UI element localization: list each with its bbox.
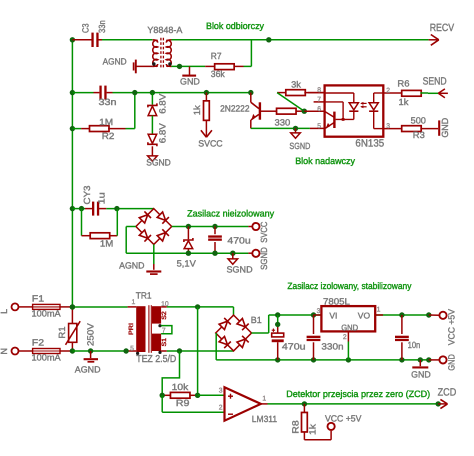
- label LM311 pin 3: [219, 387, 223, 394]
- pin VCC +5V terminal circle at R8: [328, 423, 335, 430]
- svg-text:VI: VI: [329, 311, 337, 321]
- node R8 junction: [302, 401, 307, 406]
- label SGND at rail: [227, 265, 254, 275]
- label title Detektor ZCD: [286, 389, 430, 399]
- capacitor C-330n: [307, 315, 321, 360]
- svg-text:6N135: 6N135: [355, 138, 384, 150]
- diode bridge rectifier B-1: [136, 209, 172, 245]
- svg-text:CY3: CY3: [82, 186, 92, 205]
- capacitor C-470u filter: [208, 227, 222, 254]
- pin L terminal circle: [12, 303, 19, 310]
- svg-text:SVCC: SVCC: [198, 138, 223, 148]
- node gnd-symbol junction: [418, 357, 423, 362]
- svg-text:5,1V: 5,1V: [177, 259, 196, 269]
- label SGND rotated: [259, 247, 269, 270]
- svg-text:6.8V: 6.8V: [157, 123, 167, 143]
- label SVCC: [198, 138, 223, 148]
- pin U1 pin5 lead: [310, 127, 325, 129]
- svg-text:10k: 10k: [172, 382, 189, 392]
- label LM311 pin 1: [262, 395, 266, 402]
- capacitor C-33n coupling: [99, 86, 106, 100]
- svg-text:2: 2: [386, 87, 390, 94]
- node T2 winding polarity dot left: [152, 62, 155, 65]
- svg-text:1M: 1M: [100, 238, 113, 248]
- node GND terminal junction: [426, 357, 431, 362]
- node CY3 left junction: [79, 206, 84, 211]
- label TR1 pin 5: [130, 345, 134, 352]
- label 33n value: [99, 97, 117, 107]
- wire main mains bus vertical: [71, 40, 73, 307]
- svg-text:N: N: [0, 348, 9, 355]
- label 330n value: [321, 342, 343, 352]
- svg-text:R3: R3: [413, 130, 425, 140]
- node TR1 polarity dot S1: [158, 351, 161, 354]
- svg-text:500: 500: [411, 116, 426, 126]
- svg-text:GND: GND: [341, 322, 358, 332]
- label U1 value 6N135: [355, 138, 384, 150]
- ground GND at T2 secondary: [182, 66, 196, 75]
- svg-text:F1: F1: [32, 294, 44, 304]
- svg-text:Zasilacz nieizolowany: Zasilacz nieizolowany: [187, 208, 274, 218]
- transformer T2 Y8848-A: [153, 38, 172, 69]
- svg-text:LM311: LM311: [252, 414, 277, 424]
- label 470u value: [227, 236, 250, 246]
- wire VCC5 rail: [269, 314, 429, 316]
- label L: [0, 309, 9, 314]
- label AGND at T2: [103, 56, 127, 66]
- wire B1 minus to gnd rail: [215, 333, 217, 360]
- fuse F2 100mA: [18, 349, 73, 354]
- resistor R-1M parallel CY3: [82, 209, 118, 239]
- label TR1 pin 1: [132, 299, 136, 306]
- svg-text:VCC +5V: VCC +5V: [325, 414, 361, 424]
- node secondary top junction: [195, 304, 200, 309]
- label 3k value: [291, 80, 301, 90]
- diode bridge rectifier B1: [216, 315, 252, 351]
- svg-text:1u: 1u: [97, 192, 107, 204]
- label N: [0, 348, 9, 355]
- svg-text:3: 3: [317, 308, 321, 315]
- node 10n gnd junction: [399, 357, 404, 362]
- svg-text:SGND: SGND: [227, 265, 254, 275]
- svg-text:F2: F2: [32, 338, 44, 348]
- label R7 value 36k: [211, 69, 225, 79]
- svg-text:1: 1: [262, 395, 266, 402]
- pin U1 pin6 lead: [304, 110, 324, 112]
- wire B1 plus to rail: [252, 315, 269, 333]
- label pin 8: [317, 87, 321, 94]
- resistor R7 36k: [205, 64, 243, 70]
- node 470u top junction: [212, 224, 217, 229]
- op-amp IC1 7805L regulator box: [321, 306, 375, 331]
- svg-text:R6: R6: [397, 78, 409, 88]
- label C3 value 33n: [97, 20, 107, 33]
- label TR1 pin 7: [162, 328, 166, 335]
- label GND at T2: [180, 76, 200, 86]
- label SVCC rotated: [259, 221, 269, 242]
- label Q1 value 2N2222: [220, 103, 249, 113]
- label R8 name rotated: [290, 420, 300, 433]
- wire CY3 net: [72, 208, 153, 210]
- label GND terminal rotated: [446, 354, 456, 371]
- resistor R3 500: [402, 126, 438, 132]
- svg-text:GND: GND: [440, 117, 450, 137]
- node R9 right junction: [195, 393, 200, 398]
- resistor R-3k: [277, 90, 325, 96]
- svg-text:Y8848-A: Y8848-A: [147, 25, 182, 35]
- svg-text:10n: 10n: [408, 340, 421, 350]
- label PRI rotated: [128, 323, 135, 335]
- node 470u bottom junction: [212, 251, 217, 256]
- ground AGND at N: [84, 351, 98, 362]
- transformer TR1 primary winding: [136, 306, 145, 352]
- resistor R-330 base: [266, 108, 305, 114]
- label B1 name: [251, 315, 262, 325]
- node 330n gnd junction: [311, 357, 316, 362]
- pin VCC +5V terminal circle: [429, 312, 447, 319]
- node R9 left junction: [160, 393, 165, 398]
- wire RECV net top: [99, 39, 429, 41]
- wire SVCC-sense net: [72, 92, 250, 94]
- svg-text:100mA: 100mA: [32, 308, 61, 318]
- label 470u2 value: [282, 342, 306, 352]
- svg-text:B1: B1: [251, 315, 262, 325]
- label R3 value 500: [411, 116, 426, 126]
- wire T2 secondary to R7: [171, 65, 205, 67]
- label TR1 name: [136, 290, 152, 300]
- node CY3 right junction: [114, 206, 119, 211]
- capacitor CY3 1u: [92, 202, 99, 216]
- wire U1 light arrows: [360, 102, 366, 108]
- svg-text:SGND: SGND: [289, 141, 310, 151]
- label TR1 value TEZ 2.5/D: [136, 354, 176, 365]
- transformer TR1 secondary S1: [152, 334, 161, 351]
- svg-text:AGND: AGND: [103, 56, 127, 66]
- pin N terminal circle: [12, 348, 19, 355]
- label C3 name: [81, 23, 91, 33]
- label 7805L value: [323, 296, 350, 306]
- svg-text:SGND: SGND: [146, 158, 171, 168]
- svg-text:GND: GND: [180, 76, 200, 86]
- wire AC2 to comparator jog: [162, 351, 179, 395]
- resistor R9 10k: [162, 392, 197, 398]
- node T2 winding polarity dot right: [168, 62, 171, 65]
- svg-text:SEND: SEND: [423, 75, 447, 87]
- wire between zeners: [151, 116, 153, 135]
- svg-text:AGND: AGND: [119, 260, 145, 270]
- label R2 value 1M: [99, 117, 113, 127]
- svg-text:5: 5: [317, 123, 321, 130]
- label R1 name rotated: [57, 326, 67, 338]
- node bus-CY3 junction: [70, 206, 75, 211]
- label VI pin name: [329, 311, 337, 321]
- svg-text:330: 330: [275, 117, 291, 127]
- label pin 7: [317, 97, 321, 104]
- diode zener D1 6.8V: [148, 103, 157, 115]
- wire R2 to net: [126, 93, 135, 129]
- pin SGND terminal circle: [248, 250, 259, 257]
- wire AC1 to comparator: [197, 307, 199, 395]
- node zener tap junction: [150, 90, 155, 95]
- label R9 name: [176, 398, 190, 408]
- wire secondary bottom net: [161, 350, 234, 352]
- label R3 name: [413, 130, 425, 140]
- label TR1 pin 10: [161, 301, 169, 308]
- label CY3 name: [82, 186, 92, 205]
- svg-text:3k: 3k: [291, 80, 301, 90]
- label AGND at bridge: [119, 260, 145, 270]
- svg-text:GND: GND: [411, 370, 431, 380]
- svg-text:36k: 36k: [211, 69, 225, 79]
- svg-text:Blok odbiorczy: Blok odbiorczy: [206, 21, 264, 31]
- wire SVCC rail: [172, 226, 249, 228]
- label pin 5: [317, 123, 321, 130]
- svg-text:VO: VO: [358, 311, 371, 321]
- svg-text:5: 5: [130, 345, 134, 352]
- label T2 value Y8848-A: [147, 25, 182, 35]
- svg-text:TEZ 2.5/D: TEZ 2.5/D: [136, 354, 176, 365]
- capacitor C-470u polarized: [272, 315, 284, 360]
- pin 7805 GND lead: [347, 331, 349, 360]
- svg-text:SVCC: SVCC: [259, 221, 269, 242]
- label VCC +5V at R8: [325, 414, 361, 424]
- ground GND rotated at R3: [438, 120, 440, 135]
- svg-text:7: 7: [317, 97, 321, 104]
- resistor R1 varistor 250V: [66, 307, 81, 351]
- label AGND at N: [75, 365, 101, 375]
- node ZCD arrow junction: [436, 401, 441, 406]
- label VCC +5V rotated: [446, 309, 456, 345]
- wire ZCD output: [261, 403, 438, 405]
- label 1M value: [100, 238, 113, 248]
- pin RECV arrow off-page right: [429, 35, 439, 46]
- svg-text:7805L: 7805L: [323, 296, 350, 306]
- label R1 value 250V rotated: [85, 323, 95, 346]
- svg-text:Blok nadawczy: Blok nadawczy: [295, 156, 355, 166]
- label F1 value 100mA: [32, 308, 61, 318]
- svg-text:L: L: [0, 309, 9, 314]
- label title Zasilacz izolowany stabilizowany: [287, 281, 411, 291]
- label RECV net: [430, 22, 455, 34]
- label U2 value LM311: [252, 414, 277, 424]
- node 10n rail junction: [399, 312, 404, 317]
- node secondary bottom junction: [177, 348, 182, 353]
- label S1 rotated: [161, 337, 168, 346]
- pin U1 pin2 lead: [383, 92, 402, 94]
- svg-text:6.8V: 6.8V: [157, 94, 167, 114]
- node SGND tap at pin5 wire: [293, 126, 298, 131]
- capacitor C-10n: [395, 315, 409, 360]
- wire N net to TR1: [72, 350, 136, 352]
- label R2 name: [102, 131, 115, 141]
- node N-R1 junction: [70, 348, 75, 353]
- pin 7805 VO lead: [375, 314, 383, 316]
- capacitor C3 33n: [72, 33, 102, 47]
- ground AGND at bridge: [146, 272, 161, 275]
- op-amp U2 LM311 comparator: [225, 387, 261, 421]
- transformer TR1 core: [149, 305, 151, 353]
- svg-text:TR1: TR1: [136, 290, 152, 300]
- node Q1 collector junction: [248, 90, 253, 95]
- ground SGND arrow at rail: [228, 253, 238, 264]
- svg-text:R2: R2: [102, 131, 115, 141]
- svg-text:Detektor przejscia przez zero: Detektor przejscia przez zero (ZCD): [286, 389, 430, 399]
- pin U1 pin8 lead: [308, 92, 325, 94]
- svg-text:33n: 33n: [99, 97, 117, 107]
- label 330 value: [275, 117, 291, 127]
- diode zener D2 6.8V: [148, 134, 157, 146]
- label ZCD net: [438, 386, 457, 398]
- pin U1 pin3 lead: [383, 128, 402, 130]
- label pin 2: [386, 87, 390, 94]
- svg-text:3: 3: [219, 387, 223, 394]
- diode U1 internal LED: [369, 93, 383, 129]
- diode U1 internal photodiode: [325, 93, 359, 119]
- label F1 name: [32, 294, 44, 304]
- label 7805 pin 1: [377, 306, 381, 313]
- label VO pin name: [358, 311, 371, 321]
- wire to pin2: [162, 395, 224, 412]
- ground SGND below zeners: [148, 146, 158, 161]
- wire R7 up to RECV: [244, 40, 252, 67]
- svg-text:R8: R8: [290, 420, 300, 433]
- node 470u2 rail junction: [275, 312, 280, 317]
- svg-text:1: 1: [377, 306, 381, 313]
- node 33n-R2 junction: [132, 90, 137, 95]
- label D2 value 6.8V: [157, 123, 167, 143]
- wire emitter to opto pin5: [251, 127, 310, 129]
- wire L net to TR1: [72, 306, 136, 308]
- pin U1 pin7 stub: [314, 101, 325, 103]
- ground SGND at emitter: [291, 128, 301, 138]
- label 1k value: [192, 105, 202, 116]
- resistor R2 1M: [72, 126, 125, 132]
- fuse F1 100mA: [18, 304, 73, 309]
- svg-text:PRI: PRI: [128, 323, 135, 335]
- pin GND terminal circle: [429, 356, 447, 363]
- node 330n rail junction: [311, 312, 316, 317]
- label title Blok odbiorczy: [206, 21, 264, 31]
- label D1 value 6.8V: [157, 94, 167, 114]
- svg-text:ZCD: ZCD: [438, 386, 457, 398]
- node N-AGND junction: [88, 348, 93, 353]
- node SGND tap junction: [230, 251, 235, 256]
- ground GND symbol at rail: [412, 360, 428, 368]
- node N-TR1 pin junction: [123, 348, 128, 353]
- label D3 value 5.1V: [177, 259, 196, 269]
- svg-text:R7: R7: [211, 51, 222, 61]
- label R6 name: [397, 78, 409, 88]
- wire to pin3: [198, 394, 225, 396]
- label SEND net: [423, 75, 447, 87]
- node bus-F1 junction: [70, 304, 75, 309]
- node 7805 gnd junction: [346, 357, 351, 362]
- op-amp U1 6N135 package box: [325, 85, 384, 136]
- ground AGND at T2 primary: [134, 60, 153, 74]
- resistor R-1k to SVCC: [204, 93, 210, 137]
- svg-text:1k: 1k: [307, 423, 317, 434]
- label F2 name: [32, 338, 44, 348]
- pin SVCC terminal circle: [248, 223, 259, 230]
- pin SEND arrow off-page: [428, 89, 448, 98]
- label SGND below zeners: [146, 158, 171, 168]
- label 7805 pin 3: [317, 308, 321, 315]
- svg-text:330n: 330n: [321, 342, 343, 352]
- label GND pin name: [341, 322, 358, 332]
- label LM311 pin 2: [219, 404, 223, 411]
- svg-text:R1: R1: [57, 326, 67, 338]
- node bus-R2 junction: [70, 126, 75, 131]
- pin 7805 VI lead: [314, 314, 322, 316]
- wire secondary top net: [161, 307, 233, 315]
- svg-text:3: 3: [386, 123, 390, 130]
- pin ZCD arrow off-page: [438, 399, 447, 408]
- node 1k tap junction: [204, 90, 209, 95]
- node TR1 polarity dot primary: [136, 352, 139, 355]
- label R8 value 1k rotated: [307, 423, 317, 434]
- label pin 6: [317, 106, 321, 113]
- power SVCC arrow: [201, 130, 212, 137]
- label GND rotated at R3: [440, 117, 450, 137]
- svg-text:1k: 1k: [399, 97, 409, 107]
- svg-text:S2: S2: [161, 311, 168, 320]
- label CY3 value 1u: [97, 192, 107, 204]
- svg-text:VCC +5V: VCC +5V: [446, 309, 456, 345]
- svg-text:GND: GND: [446, 354, 456, 371]
- diode zener D3 5.1V: [184, 227, 193, 254]
- svg-text:2N2222: 2N2222: [220, 103, 249, 113]
- node bus-33n junction: [70, 90, 75, 95]
- svg-text:1k: 1k: [192, 105, 202, 116]
- label S2 rotated: [161, 311, 168, 320]
- node base net junction: [302, 109, 307, 114]
- node F1-bus junction duplicate: [70, 304, 75, 309]
- label title Blok nadawczy: [295, 156, 355, 166]
- node zener 5V1 junction: [186, 224, 191, 229]
- svg-text:Zasilacz izolowany, stabilizow: Zasilacz izolowany, stabilizowany: [287, 281, 411, 291]
- label R6 value 1k: [399, 97, 409, 107]
- node VCC terminal junction: [426, 312, 431, 317]
- svg-text:2: 2: [219, 404, 223, 411]
- svg-text:33n: 33n: [97, 20, 107, 33]
- svg-text:100mA: 100mA: [32, 353, 61, 363]
- svg-text:1M: 1M: [99, 117, 113, 127]
- svg-text:6: 6: [317, 106, 321, 113]
- label R9 value 10k: [172, 382, 189, 392]
- label 7805 pin 2: [343, 334, 347, 341]
- label 10n value: [408, 340, 421, 350]
- wire SGND rail: [126, 227, 248, 254]
- wire GND rail: [216, 359, 429, 361]
- svg-text:250V: 250V: [85, 323, 95, 346]
- svg-text:RECV: RECV: [430, 22, 455, 34]
- svg-text:SGND: SGND: [259, 247, 269, 270]
- wire zener tap: [151, 93, 153, 105]
- label F2 value 100mA: [32, 353, 61, 363]
- node TR1 polarity dot S2: [158, 324, 161, 327]
- resistor R8 1k pullup: [302, 404, 332, 440]
- node bus-C3 junction: [70, 37, 75, 42]
- label R7 name: [211, 51, 222, 61]
- label pin 3: [386, 123, 390, 130]
- svg-text:AGND: AGND: [75, 365, 101, 375]
- svg-text:8: 8: [317, 87, 321, 94]
- node T2-R7 junction: [177, 64, 182, 69]
- svg-text:R9: R9: [176, 398, 190, 408]
- node 470u2 gnd junction: [275, 357, 280, 362]
- label GND at rail: [411, 370, 431, 380]
- svg-text:2: 2: [343, 334, 347, 341]
